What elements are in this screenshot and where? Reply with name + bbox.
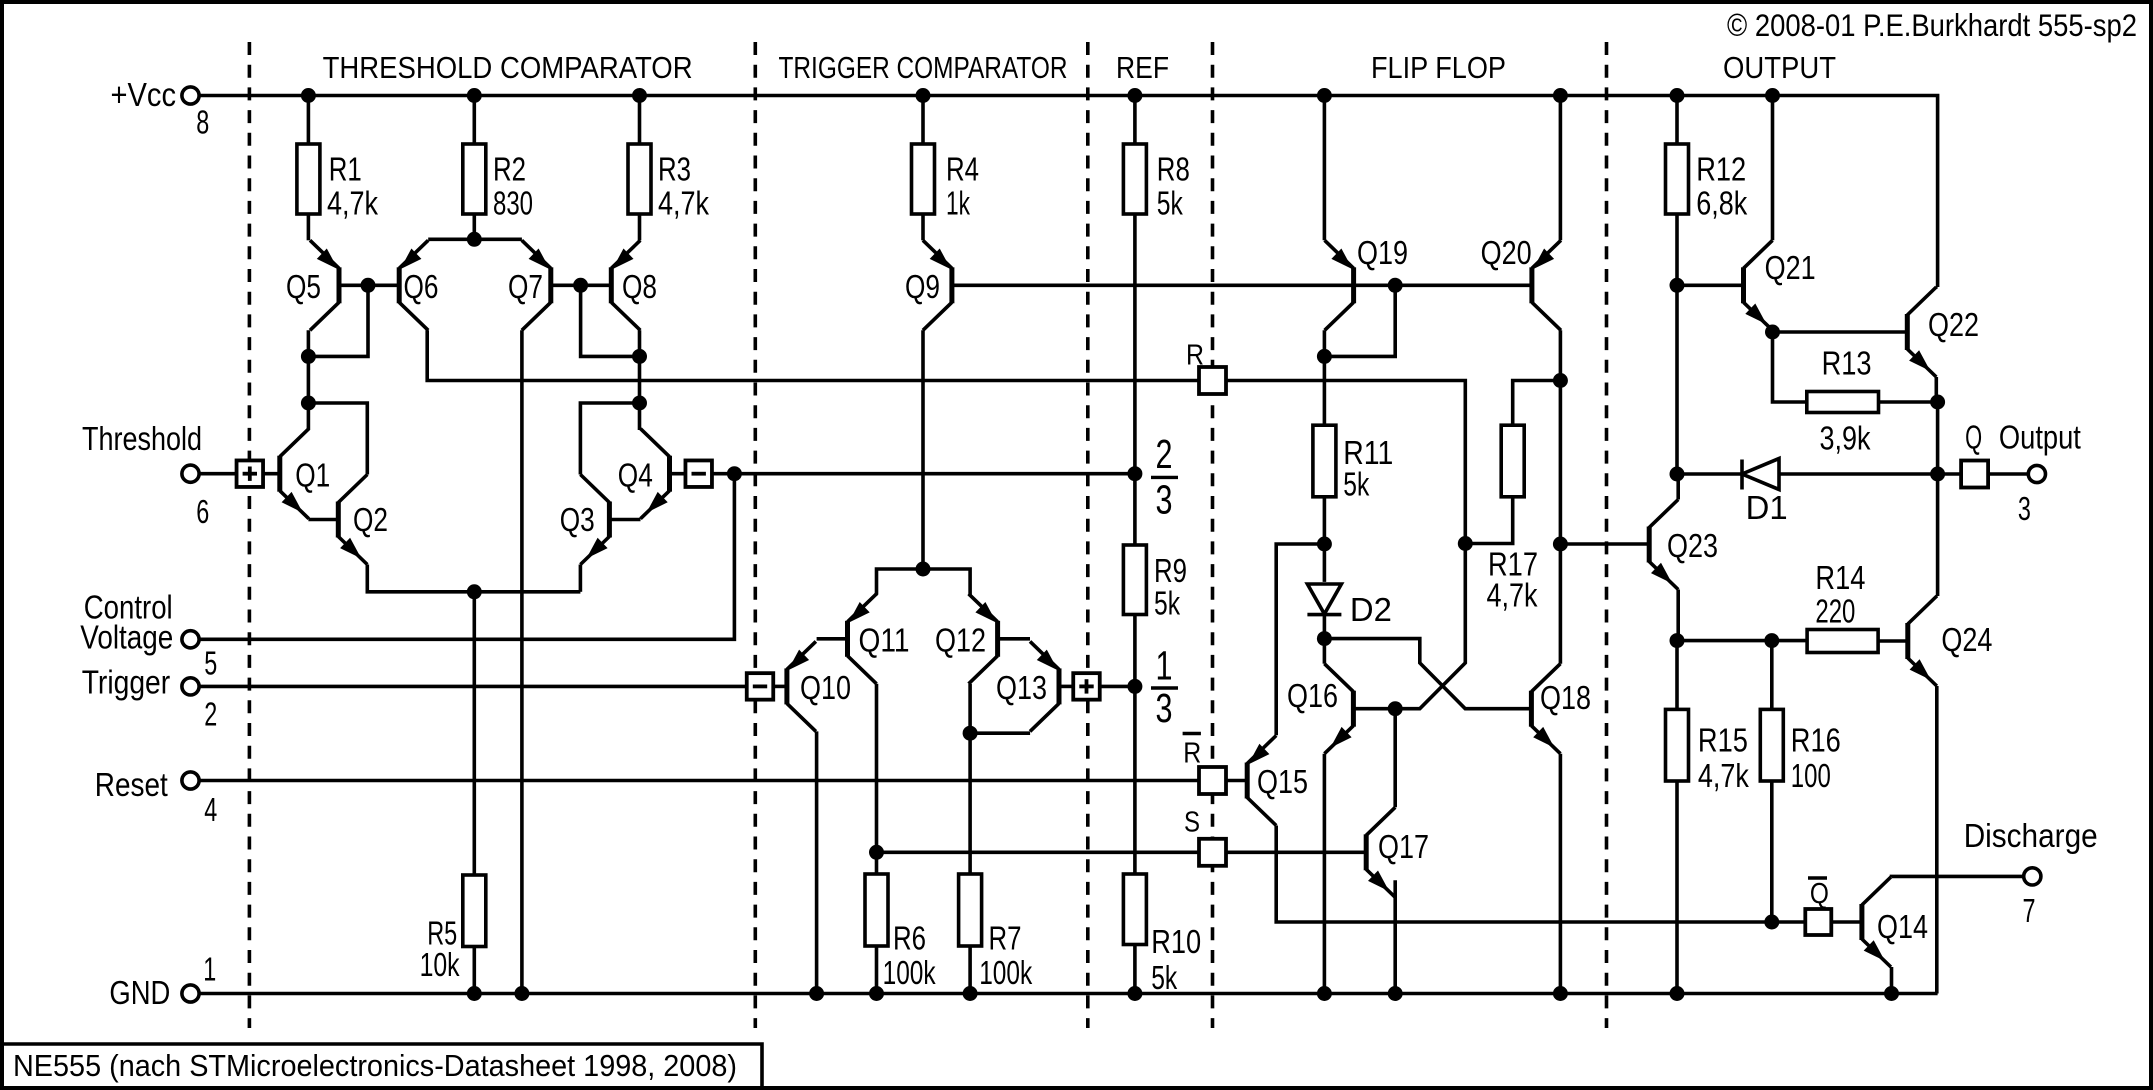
svg-text:S: S — [1184, 807, 1200, 839]
node Q1-Q2 collectors — [301, 396, 316, 411]
transistor Q7 — [548, 267, 553, 303]
wire base tie left — [308, 285, 368, 356]
svg-text:R15: R15 — [1698, 721, 1748, 758]
resistor R10 — [1123, 874, 1146, 945]
svg-text:REF: REF — [1116, 50, 1169, 85]
svg-text:NE555 (nach STMicroelectronics: NE555 (nach STMicroelectronics-Datasheet… — [13, 1048, 737, 1083]
wire Q24 emitter to GND — [1935, 686, 1939, 994]
resistor R7 — [968, 733, 972, 874]
svg-text:4: 4 — [204, 791, 217, 828]
svg-text:R: R — [1186, 339, 1204, 371]
node box Q output — [1961, 461, 1988, 488]
wire R12 to D1 node — [1675, 285, 1679, 474]
node Q21 emitter — [1765, 325, 1780, 340]
wire box to 2/3 node — [711, 472, 1135, 476]
wire Q5 base to Q6 base — [339, 283, 399, 287]
wire +Vcc rail — [199, 96, 1938, 288]
wire R13 left — [1773, 332, 1807, 402]
wire Q9 base to Q19-Q20 — [952, 283, 1532, 287]
wire Q10 emitter to Q11 base — [817, 637, 848, 641]
wire output node vertical — [1936, 402, 1940, 474]
wire base tie right — [581, 285, 640, 356]
node 1/3 — [1127, 679, 1142, 694]
svg-text:4,7k: 4,7k — [658, 184, 709, 221]
svg-text:2: 2 — [204, 695, 217, 732]
wire Q12 collector down — [968, 684, 972, 733]
wire Q18 collector up — [1559, 544, 1563, 664]
node GND-R10 — [1127, 986, 1142, 1001]
node box R — [1199, 367, 1226, 394]
node Vcc-R12 — [1670, 88, 1685, 103]
wire R to flipflop — [1226, 381, 1465, 544]
node 2/3 — [1127, 466, 1142, 481]
wire R11 to Q15 emitter — [1276, 544, 1324, 735]
svg-text:Q24: Q24 — [1941, 621, 1992, 658]
wire Q19 emitter from Vcc — [1323, 96, 1327, 241]
node GND-R6 — [869, 986, 884, 1001]
wire Q7 collector to GND — [520, 330, 524, 993]
node Q5-Q6 base — [361, 278, 376, 293]
wire S — [877, 850, 1200, 854]
transistor Q8 — [609, 267, 614, 303]
node Q18-Q20 — [1553, 537, 1568, 552]
node Q20 collector R17 — [1553, 373, 1568, 388]
svg-text:Discharge: Discharge — [1964, 817, 2098, 854]
wire R14 to Q24 base — [1878, 639, 1908, 643]
svg-text:5k: 5k — [1154, 585, 1180, 622]
node Q9 collector — [916, 562, 931, 577]
wire Q20 emitter from Vcc — [1559, 96, 1563, 241]
svg-text:5k: 5k — [1343, 465, 1369, 502]
node Vcc-R1 — [301, 88, 316, 103]
wire Q15 collector down — [1276, 826, 1805, 923]
node box Rbar — [1199, 767, 1226, 794]
node GND-R5 — [467, 986, 482, 1001]
svg-text:Q18: Q18 — [1540, 679, 1591, 716]
node R16 top — [1764, 633, 1779, 648]
resistor R13 — [1807, 392, 1879, 413]
node Vcc-R8 — [1127, 88, 1142, 103]
wire Q16 emitter to GND — [1323, 754, 1327, 994]
svg-text:8: 8 — [196, 103, 209, 140]
transistor Q20 — [1529, 267, 1534, 303]
transistor Q5 — [337, 267, 342, 303]
terminal Reset pin 4 — [182, 772, 199, 789]
title box — [4, 1044, 762, 1088]
resistor R5 — [472, 592, 476, 875]
node R17-R junction — [1458, 536, 1473, 551]
node Q3-Q4 collectors — [632, 396, 647, 411]
wire Q box to pin — [1988, 472, 2028, 476]
node Q5 collector-base tie — [301, 349, 316, 364]
svg-text:5k: 5k — [1151, 959, 1177, 996]
svg-text:Q7: Q7 — [508, 268, 543, 305]
diode D1 — [1740, 460, 1744, 490]
wire Q19 collector down — [1323, 330, 1327, 425]
node Q19 base — [1388, 278, 1403, 293]
svg-text:R9: R9 — [1154, 552, 1187, 589]
transistor Q15 — [1245, 763, 1250, 799]
resistor R17 — [1501, 425, 1524, 497]
node Vcc-Q21 — [1765, 88, 1780, 103]
wire box to 1/3 node — [1100, 685, 1135, 689]
wire Q22 emitter down — [1935, 377, 1939, 402]
resistor R3 — [638, 96, 642, 145]
svg-text:Q15: Q15 — [1257, 763, 1308, 800]
wire Trigger — [199, 685, 747, 689]
wire Q2 emitter down — [367, 565, 580, 592]
svg-text:3: 3 — [1156, 685, 1173, 731]
svg-text:Q21: Q21 — [1765, 249, 1816, 286]
wire Q4 emitter to Q3 base — [609, 518, 640, 522]
wire box to Q10 base — [773, 685, 787, 689]
svg-text:6: 6 — [196, 493, 209, 530]
transistor Q6 — [397, 267, 402, 303]
svg-text:© 2008-01 P.E.Burkhardt 555-sp: © 2008-01 P.E.Burkhardt 555-sp2 — [1727, 7, 2137, 43]
node box S — [1199, 839, 1226, 866]
svg-text:Q2: Q2 — [353, 501, 388, 538]
svg-text:Q20: Q20 — [1481, 234, 1532, 271]
wire Q19 base-collector tie — [1324, 285, 1395, 356]
svg-text:Q9: Q9 — [905, 268, 940, 305]
wire Q20 collector down — [1559, 330, 1563, 544]
wire Q17 collector up — [1393, 709, 1397, 808]
transistor Q11 — [845, 621, 850, 657]
wire Q22 collector to Vcc — [1936, 285, 1937, 289]
svg-text:R12: R12 — [1696, 151, 1746, 188]
wire Q7 base to Q8 base — [551, 283, 612, 287]
node R16 bottom — [1764, 915, 1779, 930]
svg-text:Output: Output — [1999, 418, 2081, 455]
svg-text:7: 7 — [2023, 892, 2036, 929]
svg-text:+Vcc: +Vcc — [111, 76, 177, 113]
svg-text:1: 1 — [1156, 643, 1173, 689]
node Q12-Q13 collectors — [963, 726, 978, 741]
svg-text:Q10: Q10 — [800, 669, 851, 706]
terminal Q Output pin 3 — [2028, 465, 2045, 482]
node GND-Q7 — [514, 986, 529, 1001]
svg-text:4,7k: 4,7k — [1487, 576, 1538, 613]
svg-text:Reset: Reset — [95, 766, 168, 803]
wire Q3 emitter down — [579, 565, 583, 592]
svg-text:Q12: Q12 — [935, 622, 986, 659]
svg-text:10k: 10k — [420, 946, 460, 983]
transistor Q13 — [1057, 668, 1062, 704]
svg-text:Q13: Q13 — [996, 669, 1047, 706]
wire Q13 collector join — [970, 731, 1030, 735]
svg-text:4,7k: 4,7k — [1698, 757, 1749, 794]
wire Threshold pin to box — [199, 472, 237, 476]
svg-text:Q1: Q1 — [295, 456, 330, 493]
svg-text:D2: D2 — [1350, 591, 1392, 628]
diode D2 — [1323, 544, 1327, 582]
node GND-Q16 — [1317, 986, 1332, 1001]
svg-text:Q16: Q16 — [1287, 677, 1338, 714]
wire box to Q1 base — [263, 472, 280, 476]
wire Q14 emitter to GND — [1890, 967, 1894, 994]
svg-text:R16: R16 — [1791, 721, 1841, 758]
transistor Q19 — [1351, 267, 1356, 303]
wire Q23 collector up — [1676, 474, 1680, 500]
svg-text:Q14: Q14 — [1877, 908, 1928, 945]
node control voltage join — [727, 466, 742, 481]
svg-text:4,7k: 4,7k — [327, 184, 378, 221]
wire R1 to Q5 emitter — [307, 214, 311, 240]
terminal +Vcc pin 8 — [182, 87, 199, 104]
terminal GND pin 1 — [182, 985, 199, 1002]
svg-text:100k: 100k — [883, 954, 936, 991]
wire R14 row — [1677, 639, 1807, 643]
wire to Q box — [1938, 472, 1962, 476]
svg-text:830: 830 — [493, 184, 533, 221]
svg-text:Q3: Q3 — [560, 501, 595, 538]
svg-text:Q22: Q22 — [1928, 306, 1979, 343]
resistor R2 — [472, 96, 476, 145]
wire Q12 base to Q13 emitter — [998, 637, 1030, 641]
wire cross A to Q18 base — [1324, 639, 1531, 709]
node GND-R7 — [963, 986, 978, 1001]
svg-text:220: 220 — [1815, 593, 1855, 630]
svg-text:3: 3 — [2018, 490, 2031, 527]
wire current to Q12 — [923, 569, 970, 595]
node GND-Q14 — [1884, 986, 1899, 1001]
node Q7-Q8 base — [573, 278, 588, 293]
wire Q4 base to box — [670, 472, 687, 476]
svg-text:Q11: Q11 — [859, 622, 910, 659]
wire Q21 collector to Vcc — [1771, 96, 1775, 241]
transistor Q12 — [995, 621, 1000, 657]
svg-text:3,9k: 3,9k — [1820, 419, 1871, 456]
svg-text:FLIP FLOP: FLIP FLOP — [1371, 50, 1506, 85]
wire Reset — [199, 779, 1199, 783]
svg-text:GND: GND — [109, 974, 170, 1011]
svg-text:Q5: Q5 — [286, 268, 321, 305]
transistor Q22 — [1905, 314, 1910, 350]
wire current to Q11 — [876, 569, 924, 595]
resistor R9 — [1123, 545, 1146, 615]
terminal Discharge pin 7 — [2024, 868, 2041, 885]
resistor R8 — [1123, 144, 1146, 214]
svg-text:5k: 5k — [1157, 184, 1183, 221]
svg-text:R: R — [1183, 738, 1201, 770]
wire Q24 collector up — [1935, 594, 1939, 598]
node GND-R15 — [1670, 986, 1685, 1001]
wire Q21 base — [1677, 283, 1744, 287]
transistor Q17 — [1364, 834, 1369, 870]
wire Q5 collector down — [307, 330, 311, 430]
svg-text:R3: R3 — [658, 151, 691, 188]
wire REF column top — [1133, 96, 1137, 145]
svg-text:Q23: Q23 — [1667, 527, 1718, 564]
svg-text:THRESHOLD COMPARATOR: THRESHOLD COMPARATOR — [323, 50, 693, 85]
terminal Control Voltage pin 5 — [182, 631, 199, 648]
transistor Q16 — [1351, 691, 1356, 727]
input box plus Q13 — [1073, 673, 1100, 700]
dashed separator sep 1 — [248, 42, 252, 1028]
node S junction — [869, 845, 884, 860]
transistor Q23 — [1647, 527, 1652, 563]
transistor Q10 — [784, 668, 789, 704]
node Vcc-R2 — [467, 88, 482, 103]
wire Q16 base to bar — [1354, 707, 1396, 711]
wire Q1 emitter to Q2 base — [308, 518, 338, 522]
svg-text:TRIGGER COMPARATOR: TRIGGER COMPARATOR — [779, 50, 1068, 85]
node Q22 emitter R13 — [1930, 395, 1945, 410]
node R11 bottom — [1317, 537, 1332, 552]
resistor R4 — [921, 96, 925, 145]
wire Q9 collector down — [921, 330, 925, 569]
wire cross B to Q16 base — [1395, 544, 1465, 709]
transistor Q21 — [1741, 267, 1746, 303]
svg-text:Trigger: Trigger — [82, 663, 171, 700]
svg-text:Q17: Q17 — [1378, 828, 1429, 865]
dashed separator sep 5 — [1605, 42, 1609, 1028]
node Q output — [1930, 467, 1945, 482]
input box minus Q4 — [685, 460, 712, 487]
svg-text:3: 3 — [1156, 477, 1173, 523]
resistor R11 — [1313, 425, 1336, 497]
svg-text:R13: R13 — [1822, 345, 1872, 382]
wire R17 top — [1513, 381, 1561, 426]
wire Rbar to Q15 base — [1226, 779, 1247, 783]
transistor Q4 — [667, 456, 672, 492]
svg-text:Q8: Q8 — [622, 268, 657, 305]
svg-text:2: 2 — [1156, 431, 1173, 477]
wire Q21 emitter to Q22 base — [1773, 330, 1908, 334]
wire Q17 emitter to GND — [1393, 880, 1397, 993]
svg-text:Q4: Q4 — [618, 456, 653, 493]
svg-text:R8: R8 — [1157, 151, 1190, 188]
wire R2 to Q7 emitter — [474, 238, 522, 242]
node Q16 base — [1388, 701, 1403, 716]
svg-text:R14: R14 — [1815, 559, 1865, 596]
dashed separator sep 4 — [1211, 42, 1215, 1028]
transistor Q9 — [949, 267, 954, 303]
node GND-Q10 — [809, 986, 824, 1001]
svg-text:6,8k: 6,8k — [1696, 184, 1747, 221]
dashed separator sep 2 — [753, 42, 757, 1028]
node Vcc-Q20 — [1553, 88, 1568, 103]
node R15 top — [1670, 633, 1685, 648]
wire Q18 emitter to GND — [1559, 754, 1563, 994]
wire Q23 emitter down — [1676, 590, 1680, 641]
node R2 emitters — [467, 232, 482, 247]
node D2 bottom — [1317, 631, 1332, 646]
wire Q13 base to box — [1059, 685, 1073, 689]
svg-text:OUTPUT: OUTPUT — [1723, 50, 1836, 85]
transistor Q1 — [277, 456, 282, 492]
svg-text:R7: R7 — [989, 920, 1022, 957]
svg-text:Q6: Q6 — [404, 268, 439, 305]
svg-text:R1: R1 — [329, 151, 362, 188]
svg-text:1k: 1k — [946, 184, 970, 221]
wire Q16 collector — [1323, 639, 1327, 664]
svg-text:R4: R4 — [946, 151, 979, 188]
svg-text:Q: Q — [1965, 418, 1982, 455]
node Vcc-R4 — [916, 88, 931, 103]
wire Q2 collector branch — [308, 403, 367, 475]
svg-text:Threshold: Threshold — [82, 420, 202, 457]
node Vcc-Q19 — [1317, 88, 1332, 103]
svg-text:R2: R2 — [493, 151, 526, 188]
transistor Q3 — [607, 502, 612, 538]
resistor R16 — [1770, 641, 1774, 710]
node GND-Q17 — [1388, 986, 1403, 1001]
transistor Q2 — [336, 502, 341, 538]
wire Control Voltage — [199, 474, 734, 640]
svg-text:Voltage: Voltage — [80, 618, 173, 655]
input box plus Q1 — [237, 460, 263, 487]
transistor Q18 — [1529, 691, 1534, 727]
resistor R14 — [1807, 630, 1878, 653]
svg-text:R10: R10 — [1151, 923, 1201, 960]
svg-text:5: 5 — [204, 644, 217, 681]
wire R3 to Q8 emitter — [638, 214, 642, 240]
wire R13 right — [1879, 400, 1938, 404]
wire GND rail — [199, 992, 1938, 996]
wire Q8 collector down — [638, 330, 642, 430]
wire R flipflop from Q6 collector — [427, 330, 1199, 380]
wire Q3 collector branch — [580, 403, 639, 475]
node Vcc-R3 — [632, 88, 647, 103]
node D1 left — [1670, 467, 1685, 482]
node Q19 collector — [1317, 349, 1332, 364]
node Q8 collector-base tie — [632, 349, 647, 364]
input box minus Q10 — [747, 673, 774, 700]
wire D1 left — [1677, 472, 1742, 476]
terminal Trigger pin 2 — [182, 678, 199, 695]
svg-text:Q19: Q19 — [1357, 234, 1408, 271]
resistor R15 — [1675, 641, 1679, 710]
svg-text:R6: R6 — [893, 920, 926, 957]
wire flipflop out to Q23 base — [1560, 542, 1649, 546]
svg-text:100: 100 — [1791, 757, 1831, 794]
wire R2 to Q6 emitter — [428, 238, 474, 242]
wire S to Q17 base — [1226, 850, 1366, 854]
wire Q14 collector to Discharge — [1892, 875, 2024, 879]
terminal Threshold pin 6 — [182, 465, 199, 482]
svg-text:Q: Q — [1810, 878, 1829, 910]
wire Qbar box to Q14 base — [1831, 920, 1862, 924]
node R12 bottom — [1670, 278, 1685, 293]
node GND-Q18 — [1553, 986, 1568, 1001]
resistor R1 — [307, 96, 311, 145]
wire Q11 collector down to S — [875, 684, 879, 853]
node R5 top — [467, 584, 482, 599]
resistor R12 — [1675, 96, 1679, 145]
transistor Q24 — [1905, 623, 1910, 659]
node box Qbar — [1805, 909, 1831, 935]
svg-text:100k: 100k — [979, 954, 1032, 991]
svg-text:D1: D1 — [1746, 489, 1788, 526]
resistor R6 — [875, 852, 879, 874]
wire Q10 collector to GND — [815, 731, 819, 993]
dashed separator sep 3 — [1086, 42, 1090, 1028]
transistor Q14 — [1859, 904, 1864, 940]
svg-text:1: 1 — [203, 951, 216, 988]
